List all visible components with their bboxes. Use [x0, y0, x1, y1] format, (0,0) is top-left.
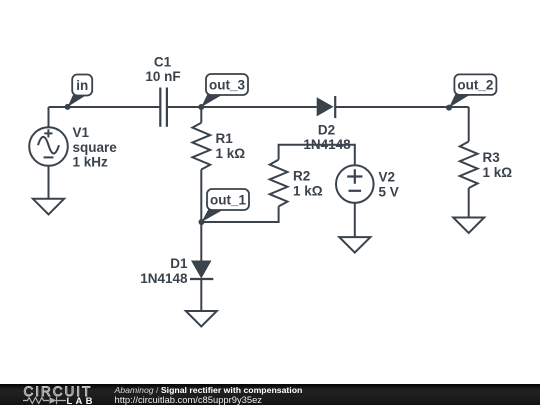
svg-text:out_2: out_2 [457, 78, 493, 93]
svg-text:1 kΩ: 1 kΩ [216, 146, 246, 161]
value label R2 1 kOhm [293, 169, 323, 199]
capacitor C1 [160, 88, 167, 127]
wire V1 bottom [48, 166, 50, 199]
svg-text:5 V: 5 V [379, 185, 399, 200]
svg-text:V1: V1 [73, 125, 90, 140]
value label C1 10 nF [145, 55, 180, 85]
resistor R2 [270, 160, 288, 207]
svg-text:1 kHz: 1 kHz [73, 155, 109, 170]
attribution text [115, 386, 303, 405]
node in [65, 75, 93, 110]
value label R1 1 kOhm [216, 131, 246, 161]
wire C1 to D2 [167, 106, 317, 108]
CircuitLab logo [23, 384, 98, 405]
svg-text:D1: D1 [170, 256, 188, 271]
footer bar [0, 384, 540, 405]
ground (R3) [453, 218, 484, 234]
value label V1 square 1 kHz [73, 125, 118, 169]
svg-text:V2: V2 [379, 170, 396, 185]
wire out_1 to D1 [200, 222, 202, 261]
wire R2 top to V2 [279, 145, 355, 166]
svg-text:1N4148: 1N4148 [140, 271, 188, 286]
ground (D1) [186, 311, 217, 327]
svg-text:out_1: out_1 [210, 193, 246, 208]
wire D2 to out_2 corner [335, 106, 469, 108]
resistor R1 [192, 123, 210, 170]
wire out_1 to R2 [201, 206, 278, 222]
node out_2 [446, 74, 496, 110]
voltage source V1 [29, 127, 68, 166]
svg-text:out_3: out_3 [209, 78, 245, 93]
svg-text:C1: C1 [154, 55, 172, 70]
svg-text:R1: R1 [216, 131, 234, 146]
svg-text:1N4148: 1N4148 [303, 137, 351, 152]
wire in to C1 [49, 106, 161, 108]
wire D1 to ground [200, 279, 202, 311]
wire V2 bottom [354, 203, 356, 237]
svg-text:R2: R2 [293, 169, 310, 184]
node out_3 [198, 74, 248, 110]
diode D1 [140, 256, 213, 286]
svg-text:10 nF: 10 nF [145, 69, 180, 84]
wire R3 to ground [468, 188, 470, 217]
svg-text:LAB: LAB [67, 396, 96, 405]
wire out_3 to R1 [200, 107, 202, 123]
wire out_2 to R3 [468, 107, 470, 142]
svg-text:in: in [76, 78, 88, 93]
svg-text:1 kΩ: 1 kΩ [293, 184, 323, 199]
svg-text:D2: D2 [318, 123, 335, 138]
wire V1 top [48, 107, 50, 127]
value label V2 5 V [379, 170, 399, 200]
voltage source V2 [336, 165, 374, 203]
svg-text:1 kΩ: 1 kΩ [483, 165, 513, 180]
value label R3 1 kOhm [483, 150, 513, 180]
wire R1 to out_1 [200, 170, 202, 223]
node out_1 [199, 189, 250, 225]
diode D2 [303, 96, 351, 152]
ground (V1) [33, 199, 64, 215]
ground (V2) [339, 237, 370, 253]
resistor R3 [460, 142, 478, 189]
svg-text:square: square [73, 140, 118, 155]
svg-text:R3: R3 [483, 150, 501, 165]
